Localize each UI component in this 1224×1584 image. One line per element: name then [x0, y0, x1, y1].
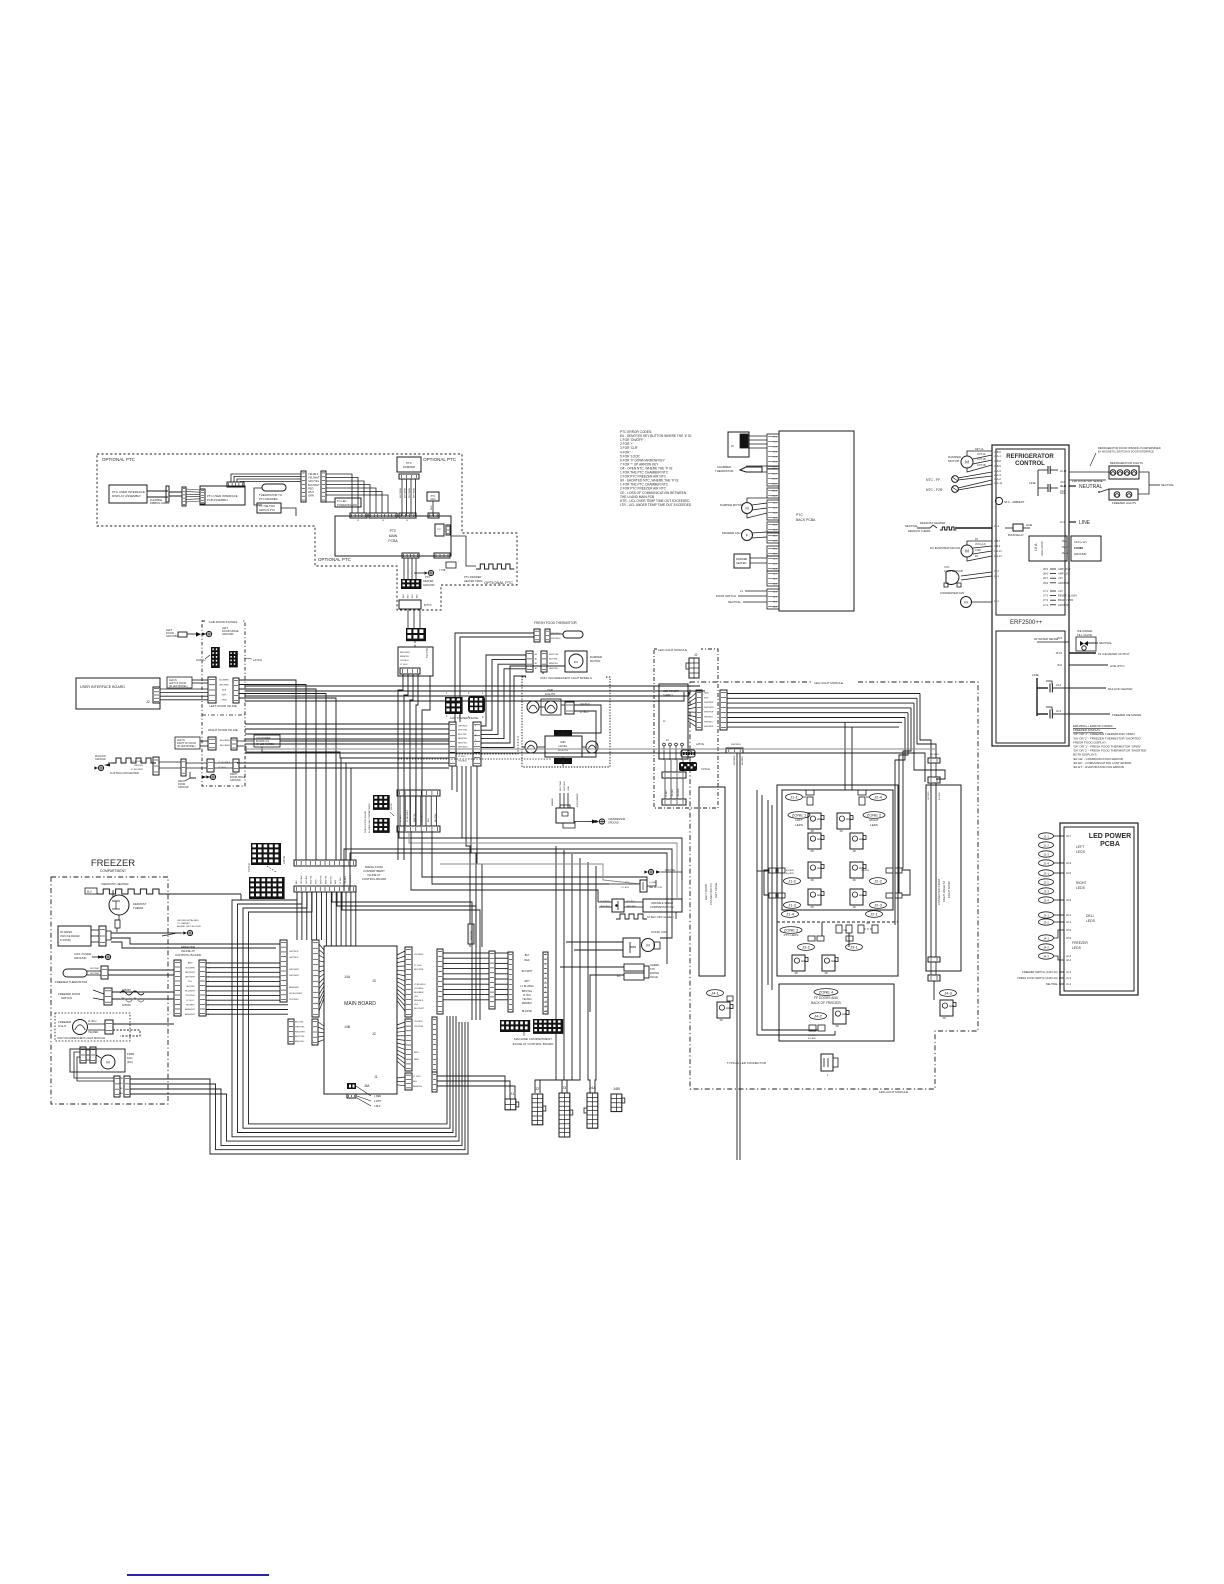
svg-text:J3-1: J3-1: [1043, 913, 1049, 917]
wires water valve left: [560, 966, 624, 968]
left door connection box: [699, 787, 725, 976]
svg-text:REGULATOR: REGULATOR: [1041, 541, 1044, 556]
svg-text:J10-2: J10-2: [772, 496, 778, 498]
freezer thermistor connector: [101, 966, 108, 979]
svg-text:J7-6: J7-6: [773, 462, 778, 464]
power cord wires up: [559, 793, 561, 808]
svg-text:PTC LEDS: PTC LEDS: [784, 933, 799, 937]
svg-text:BRN: BRN: [414, 1059, 419, 1061]
svg-text:VCC: VCC: [944, 565, 950, 569]
svg-text:FREEZER: FREEZER: [91, 858, 135, 869]
svg-text:YEL/RED: YEL/RED: [414, 954, 424, 956]
to PTC dashed link: [414, 641, 416, 647]
svg-text:J4A-14: J4A-14: [994, 555, 1002, 558]
svg-text:RIGHT DOOR INLINE: RIGHT DOOR INLINE: [208, 728, 238, 732]
damper motor (control): [961, 456, 973, 468]
svg-text:BEHIND LEFT ROLLER: BEHIND LEFT ROLLER: [177, 926, 201, 928]
svg-text:J9-2: J9-2: [773, 541, 778, 543]
svg-text:BLK: BLK: [417, 594, 419, 598]
svg-text:YEL/BLK: YEL/BLK: [522, 998, 532, 1001]
label ONLY INCANDESCENT LIGHT MODELS: [526, 674, 606, 680]
svg-text:LIGHT: LIGHT: [58, 1024, 67, 1028]
svg-text:J8-2: J8-2: [773, 597, 778, 599]
svg-text:FAN: FAN: [431, 498, 436, 501]
PTC inline connector right: [321, 471, 326, 502]
svg-text:CONDENSER FAN: CONDENSER FAN: [940, 591, 964, 595]
svg-text:GROUND: GROUND: [1058, 581, 1070, 585]
svg-text:BLK/WHT: BLK/WHT: [522, 970, 533, 973]
svg-text:YEL: YEL: [188, 981, 193, 983]
PTC back PCBA box: [779, 431, 854, 611]
svg-text:J2: J2: [535, 1086, 540, 1091]
svg-text:J4B-2: J4B-2: [994, 545, 1001, 548]
svg-text:M: M: [964, 599, 967, 604]
inverter connector: [612, 899, 624, 912]
DC evaporator fan: [961, 545, 973, 557]
wires into aux tower from left: [245, 723, 449, 725]
svg-text:LATCH: LATCH: [253, 658, 262, 662]
freezer lights box: [1109, 489, 1138, 500]
damper connector stack: [526, 651, 533, 672]
lights neutral wiring: [1138, 472, 1149, 494]
svg-text:GRN: GRN: [704, 693, 709, 695]
svg-text:GROUND: GROUND: [222, 632, 234, 636]
svg-text:465060: 465060: [122, 988, 131, 992]
svg-text:BLK/WHT: BLK/WHT: [308, 483, 320, 487]
svg-text:ERF2500++: ERF2500++: [1010, 620, 1043, 626]
svg-text:J9-6: J9-6: [1060, 480, 1066, 484]
svg-text:OPTIONAL PTC: OPTIONAL PTC: [102, 457, 136, 462]
svg-text:GRY/BLK: GRY/BLK: [289, 951, 299, 953]
svg-text:GRY/WHT: GRY/WHT: [90, 968, 100, 970]
svg-text:FREEZER LIGHTS: FREEZER LIGHTS: [1112, 501, 1136, 505]
svg-text:GRY/WHT: GRY/WHT: [289, 975, 300, 977]
svg-text:(HAS ICE MAKER: (HAS ICE MAKER: [60, 935, 80, 938]
svg-text:RED/YEL: RED/YEL: [549, 668, 559, 670]
svg-text:DEFROST HEATER: DEFROST HEATER: [920, 521, 945, 525]
only incandescent dotted box: [522, 677, 610, 767]
svg-text:J3: J3: [406, 520, 409, 522]
svg-text:J5-10: J5-10: [1056, 651, 1063, 655]
svg-text:(IN LED MODEL): (IN LED MODEL): [256, 743, 275, 746]
svg-text:FF: FF: [795, 971, 799, 975]
svg-text:F: F: [746, 532, 749, 537]
svg-text:M: M: [106, 1059, 109, 1064]
PTC drawer heater box: [734, 554, 750, 568]
svg-text:DRAWER FAN: DRAWER FAN: [722, 531, 741, 535]
oval J1-3: [784, 902, 801, 909]
svg-text:BLK: BLK: [428, 818, 430, 822]
svg-text:J4B-8: J4B-8: [994, 459, 1001, 463]
svg-text:FREEZER ICE MAKER: FREEZER ICE MAKER: [1112, 713, 1141, 717]
J1-1 NEUTRAL: [1069, 485, 1076, 487]
PTC light aux box: [435, 524, 444, 536]
svg-text:CONTROL BOARD: CONTROL BOARD: [362, 877, 386, 881]
J4-3 oval: [940, 990, 957, 997]
wires damper to aux: [481, 655, 526, 726]
svg-text:WHT/YEL: WHT/YEL: [321, 874, 323, 884]
wire right door inline to right: [237, 762, 449, 764]
svg-text:LEDS IN PTC: LEDS IN PTC: [259, 508, 275, 512]
svg-text:J2-4: J2-4: [1066, 958, 1072, 962]
PTC main top connector J2: [369, 513, 397, 518]
gray wire machine area: [440, 864, 640, 884]
svg-text:CATCH: CATCH: [247, 863, 251, 872]
svg-text:J1-2: J1-2: [1043, 843, 1049, 847]
svg-text:FF: FF: [720, 1018, 724, 1022]
wires aux tower to lights: [522, 746, 525, 748]
NTC-F2R thermistor: [952, 486, 959, 493]
svg-text:NTC - AMBIENT: NTC - AMBIENT: [1004, 500, 1025, 504]
svg-text:J2-1: J2-1: [994, 600, 999, 603]
optional PTC dashed enclosure: [97, 454, 517, 610]
svg-text:LT. BLU: LT. BLU: [523, 994, 532, 997]
svg-text:GROUND: GROUND: [166, 634, 178, 638]
svg-text:J8-6: J8-6: [1043, 572, 1049, 576]
PTC t-stat box: [446, 562, 456, 568]
svg-text:GRY/BLK: GRY/BLK: [289, 957, 299, 959]
svg-text:FREEZER THERMISTOR: FREEZER THERMISTOR: [55, 980, 87, 984]
svg-text:RED/BLK: RED/BLK: [414, 1000, 424, 1002]
cond fan motor: [642, 939, 655, 952]
svg-text:FRESH FOOD INLINE: FRESH FOOD INLINE: [365, 810, 367, 833]
led supply bar outer: [720, 690, 727, 730]
svg-text:YEL/RED: YEL/RED: [414, 988, 424, 990]
svg-text:GRN/YEL: GRN/YEL: [295, 1026, 305, 1028]
svg-text:GROUND: GROUND: [95, 758, 106, 761]
wires freezer inline to main board: [206, 962, 280, 964]
svg-text:J2-7: J2-7: [1066, 834, 1072, 838]
fresh food inline lower bar: [397, 826, 440, 832]
defrost heater resistor: [85, 888, 97, 894]
svg-text:ZONE 1: ZONE 1: [792, 812, 807, 817]
svg-text:OUT 2A: OUT 2A: [977, 453, 986, 456]
svg-text:J1-3: J1-3: [788, 902, 797, 907]
led power pcba outer box: [1060, 823, 1138, 995]
flip mullion heater: [111, 758, 156, 763]
fresh food inline upper bar: [397, 790, 440, 796]
svg-text:LEFT DOOR: LEFT DOOR: [704, 884, 708, 900]
left door inline connector B: [233, 678, 239, 703]
user interface board box: [76, 678, 160, 709]
svg-text:RIGHT HINGE TO: RIGHT HINGE TO: [942, 881, 946, 902]
svg-text:GRY/BLK: GRY/BLK: [458, 726, 468, 728]
svg-text:J1-1: J1-1: [1043, 834, 1049, 838]
svg-text:CATCH: CATCH: [196, 658, 205, 662]
svg-text:J2: J2: [372, 1032, 376, 1036]
svg-text:J1-1: J1-1: [1066, 982, 1072, 986]
svg-text:GROUND: GROUND: [230, 779, 241, 782]
svg-text:B PTC: B PTC: [424, 603, 432, 607]
to PTC box: [398, 647, 433, 676]
svg-text:UI A: UI A: [1033, 543, 1038, 551]
svg-text:J6A-3: J6A-3: [1062, 552, 1069, 555]
svg-text:F8: F8: [975, 555, 978, 558]
svg-text:SWITCH: SWITCH: [61, 996, 72, 1000]
svg-text:GRY/RED: GRY/RED: [219, 685, 229, 687]
svg-text:GREEN: GREEN: [650, 963, 659, 967]
svg-text:CATCH: CATCH: [701, 767, 710, 771]
evap fan wires: [967, 541, 992, 545]
svg-text:J11-2: J11-2: [772, 474, 778, 476]
svg-text:PTC DRAWER: PTC DRAWER: [259, 497, 278, 501]
svg-text:THERM.: THERM.: [133, 906, 144, 910]
PTC user interface PCB assembly: [200, 486, 245, 505]
svg-text:CONNECTION FROM: CONNECTION FROM: [937, 879, 941, 905]
svg-text:(IN LED MODEL): (IN LED MODEL): [169, 685, 188, 688]
mid level lights box: [545, 736, 582, 757]
svg-text:T/W: T/W: [650, 967, 655, 971]
svg-text:BLK/PNK: BLK/PNK: [522, 1010, 533, 1013]
machine inline bar left: [508, 952, 513, 1012]
svg-text:INLINE AT CONTROL BOARD: INLINE AT CONTROL BOARD: [513, 1042, 555, 1046]
svg-text:GRY/WHT: GRY/WHT: [90, 973, 100, 975]
frzr fan out connector: [114, 1076, 120, 1097]
latch leader line: [267, 866, 276, 872]
svg-text:J4-1: J4-1: [773, 574, 778, 576]
svg-text:DELI: DELI: [1086, 914, 1094, 918]
svg-text:RED: RED: [308, 486, 314, 490]
svg-text:TO THE TWO: TO THE TWO: [259, 504, 275, 508]
svg-text:COMPRESSOR INV.: COMPRESSOR INV.: [650, 905, 675, 909]
sensor link wires: [469, 944, 471, 947]
svg-text:DC EVAPORATOR FAN: DC EVAPORATOR FAN: [930, 546, 960, 550]
svg-text:GRY: GRY: [222, 695, 227, 697]
svg-text:YEL/BLK: YEL/BLK: [308, 472, 319, 476]
led supply J3 pins: [663, 746, 665, 760]
refrigerator control outer box: [992, 445, 1069, 746]
iw water connector: [99, 926, 106, 946]
zone loop wires left: [757, 790, 835, 1035]
svg-text:UI: UI: [731, 444, 734, 448]
svg-text:J1-4: J1-4: [786, 911, 795, 916]
svg-text:OPTIONAL PTC: OPTIONAL PTC: [318, 557, 352, 562]
mid level bulb left: [525, 741, 537, 753]
svg-text:BLK: BLK: [296, 880, 298, 884]
svg-text:J8-5: J8-5: [1043, 567, 1049, 571]
PTC inline connector left: [301, 471, 306, 502]
inline bar links: [399, 796, 401, 826]
freezer thermistor: [63, 969, 87, 977]
svg-text:LEDS: LEDS: [1086, 919, 1096, 923]
right hinge wires: [930, 763, 932, 777]
svg-text:GROUND: GROUND: [178, 786, 189, 789]
svg-text:BY MAGNETIC SWITCH IN DOOR INT: BY MAGNETIC SWITCH IN DOOR INTERFACE: [1098, 450, 1154, 454]
mullion wires: [159, 761, 181, 763]
label ZONE 4: [814, 989, 838, 996]
zone3 top connectors row: [836, 925, 842, 933]
main board J4A inner bar: [312, 940, 319, 1017]
svg-text:BLK/YEL: BLK/YEL: [549, 659, 559, 661]
svg-text:TO LED: TO LED: [337, 499, 346, 503]
svg-text:LT. BLU: LT. BLU: [666, 789, 668, 797]
svg-text:AMP_OUT: AMP_OUT: [1058, 567, 1071, 571]
fresh food compartment grid connector: [406, 628, 426, 641]
svg-text:GROUND: GROUND: [1074, 552, 1086, 556]
svg-text:LEFT: LEFT: [1076, 845, 1084, 849]
svg-text:RED/WHT: RED/WHT: [400, 652, 411, 654]
svg-text:J4B: J4B: [613, 1086, 620, 1091]
svg-text:3: 3: [446, 715, 448, 718]
svg-text:J4A-9: J4A-9: [994, 469, 1001, 473]
zone4 led module: [833, 1008, 846, 1024]
wire bundle right door inline long runs: [280, 740, 449, 742]
svg-text:J5-6: J5-6: [1057, 663, 1063, 667]
led module main dashed boundary: [690, 682, 978, 1089]
svg-text:LT.BLU/BLK: LT.BLU/BLK: [414, 984, 426, 986]
fan motor connector: [640, 880, 647, 892]
PTC damper wires down: [401, 479, 403, 516]
svg-text:RED: RED: [431, 505, 433, 510]
condenser fan: [961, 597, 972, 608]
PTC heater bottom box: [399, 600, 421, 609]
freezer inline bar right: [199, 960, 206, 1016]
svg-text:J2: J2: [694, 653, 698, 657]
svg-text:AUX TOWER INLINE: AUX TOWER INLINE: [450, 716, 479, 720]
svg-text:IN MACHINE COMPARTMENT: IN MACHINE COMPARTMENT: [368, 802, 371, 833]
svg-text:WHT: WHT: [524, 980, 530, 983]
wires fresh food inline down: [296, 892, 298, 940]
svg-text:DC: DC: [574, 660, 579, 664]
svg-text:YEL/BLK: YEL/BLK: [400, 660, 409, 662]
damper motor wires: [967, 451, 992, 456]
ribbon connector pins: [182, 487, 186, 506]
fresh food inline top bar lower: [294, 886, 356, 892]
svg-text:GRY/WHT: GRY/WHT: [185, 977, 196, 979]
J4B fanout: [318, 1022, 324, 1026]
svg-text:J2-5: J2-5: [1066, 871, 1072, 875]
svg-text:WHT/BRN: WHT/BRN: [405, 487, 407, 498]
svg-text:BLA: BLA: [222, 689, 227, 692]
mullion inline connector 3: [233, 759, 239, 772]
freezer light bulb: [73, 1020, 88, 1035]
zone2 inline pair 1: [886, 868, 893, 873]
svg-text:IN DOOR): IN DOOR): [60, 939, 71, 942]
zone3 connector pair 2: [846, 936, 853, 941]
zone2 led module row-b: [850, 833, 863, 849]
run capacitor square wave: [616, 914, 647, 919]
wire bundle left door inline to fresh food inline: [239, 680, 296, 860]
J2 bottom grid: [532, 1094, 543, 1125]
svg-text:J8-9: J8-9: [1043, 581, 1049, 585]
PTC fan box: [427, 492, 439, 501]
svg-text:YEL/BLK: YEL/BLK: [672, 788, 674, 797]
svg-text:BRN/WHT: BRN/WHT: [185, 1009, 196, 1011]
svg-text:YEL: YEL: [119, 1088, 123, 1090]
svg-text:B1: B1: [535, 663, 538, 665]
svg-text:YEL: YEL: [414, 996, 419, 998]
svg-text:M: M: [965, 460, 969, 465]
svg-text:J6-3: J6-3: [773, 513, 778, 515]
led supply wires to zones: [727, 693, 920, 695]
svg-text:9: 9: [482, 716, 484, 719]
svg-text:AMP__IN: AMP__IN: [1058, 572, 1069, 576]
svg-text:LATCH: LATCH: [390, 803, 393, 810]
svg-text:2: 2: [468, 692, 470, 695]
svg-text:RESET_FLASH: RESET_FLASH: [1058, 594, 1077, 598]
svg-text:YEL: YEL: [414, 1004, 419, 1006]
svg-text:MACHINE COMPARTMENT: MACHINE COMPARTMENT: [514, 1037, 552, 1041]
right hinge led module: [940, 1000, 953, 1016]
svg-text:BRN/YEL: BRN/YEL: [549, 663, 559, 665]
svg-text:J3-1: J3-1: [773, 559, 778, 561]
svg-text:LINE (PTC): LINE (PTC): [1110, 664, 1125, 668]
svg-text:COMPRESSOR: COMPRESSOR: [944, 569, 963, 573]
svg-text:J9-1: J9-1: [773, 549, 778, 551]
aux tower grid connector 2: [468, 696, 485, 713]
svg-text:J7-3: J7-3: [773, 447, 778, 449]
svg-text:J4A-11: J4A-11: [994, 481, 1003, 485]
svg-text:USER INTERFACE BOARD: USER INTERFACE BOARD: [80, 685, 125, 689]
svg-text:RIGHT: RIGHT: [1076, 881, 1087, 885]
svg-text:J3-9: J3-9: [1060, 491, 1066, 495]
machine inline pre-bar: [489, 951, 495, 1009]
svg-text:J5-9: J5-9: [1057, 636, 1063, 640]
svg-text:J2: J2: [146, 700, 150, 704]
svg-text:FRESH FOOD SWITCH (120V AC): FRESH FOOD SWITCH (120V AC): [1017, 976, 1058, 980]
wires cond fan: [566, 941, 623, 943]
right hinge connector bot2: [928, 975, 940, 981]
label ZONE 3 PTC LEDS: [780, 927, 802, 934]
aux tower inline bar left: [449, 722, 456, 766]
right door ground: [210, 774, 215, 779]
svg-text:RIGHT: RIGHT: [869, 818, 879, 822]
svg-text:BRN/YEL: BRN/YEL: [325, 875, 327, 884]
svg-text:J7-3: J7-3: [1043, 598, 1049, 602]
svg-text:REFRIGERATOR DOOR OPENING IS D: REFRIGERATOR DOOR OPENING IS DETERMINED: [1098, 446, 1161, 450]
main board J4B inner bar: [312, 1019, 318, 1045]
machine latch grid 1: [373, 795, 390, 810]
svg-text:J4B: J4B: [344, 1025, 351, 1029]
svg-text:BRN/YEL: BRN/YEL: [522, 990, 533, 993]
svg-text:FF: FF: [811, 829, 815, 833]
svg-text:POWER BOARD: POWER BOARD: [337, 503, 357, 507]
freezer light connector: [105, 1020, 113, 1034]
svg-text:THERMISTOR: THERMISTOR: [715, 469, 733, 473]
svg-text:J7-2: J7-2: [1043, 594, 1049, 598]
svg-text:BLK/YEL: BLK/YEL: [330, 875, 332, 884]
svg-text:RIBBON CABLE: RIBBON CABLE: [150, 501, 169, 505]
svg-text:LEFT HINGE: LEFT HINGE: [714, 883, 718, 898]
svg-text:PTC: PTC: [437, 529, 442, 531]
svg-text:BLK/BRN: BLK/BRN: [808, 1038, 816, 1040]
zone1 led module row-d: [808, 889, 821, 905]
svg-text:WHT/BRN: WHT/BRN: [731, 744, 741, 746]
svg-text:+5V: +5V: [1058, 589, 1063, 593]
J6A lower connector: [347, 1094, 356, 1098]
svg-text:BRN: BRN: [188, 963, 193, 965]
svg-text:ZONE 2: ZONE 2: [867, 812, 882, 817]
svg-text:BLK: BLK: [525, 954, 530, 957]
led power pcba inner box: [1064, 827, 1134, 991]
J4-1 led module: [717, 1002, 730, 1018]
svg-text:VCC(+12): VCC(+12): [1074, 540, 1087, 544]
fresh food thermistor connector: [534, 629, 540, 642]
svg-text:BRN/YEL: BRN/YEL: [413, 1086, 423, 1088]
refrigerator control inner top box: [996, 449, 1065, 615]
wires inline to PTC main pcba: [326, 474, 352, 513]
svg-text:J3-1: J3-1: [850, 944, 859, 949]
svg-text:J1: J1: [510, 1091, 515, 1096]
led in left FF door box: [167, 677, 192, 688]
svg-text:J1-3: J1-3: [1060, 520, 1066, 524]
svg-text:J3-2: J3-2: [1043, 920, 1049, 924]
svg-text:J11-3: J11-3: [772, 479, 778, 481]
PTC main bottom connector J6: [402, 553, 419, 558]
svg-text:GRY/YEL: GRY/YEL: [308, 479, 320, 483]
svg-text:LT. BLU: LT. BLU: [88, 1020, 97, 1023]
svg-text:YEL/RED: YEL/RED: [88, 1031, 99, 1034]
